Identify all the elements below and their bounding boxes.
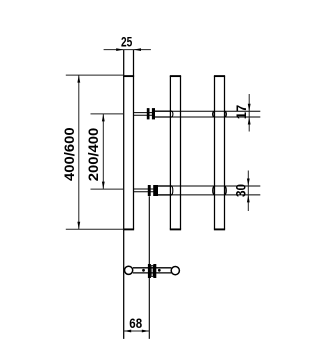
upper standoff: threaded rod xyxy=(134,112,153,114)
upper standoff: sleeve/extension lines to the right xyxy=(155,110,172,112)
plan view: washer outline between nuts xyxy=(151,266,153,277)
plan view: nut bar B xyxy=(153,264,156,278)
glass line (extension from lower fixing to dim 68) xyxy=(148,196,150,339)
lower standoff: nut A xyxy=(148,185,151,196)
upper standoff: nut B xyxy=(152,108,155,119)
dim 400/600: bottom extension line xyxy=(66,228,124,230)
dim 17: dimension line with arrows xyxy=(248,94,250,132)
lower standoff: hole arc at bar2 xyxy=(213,187,214,195)
lower standoff: sleeve end arc xyxy=(171,186,173,195)
bar 2 (rear handle tube) xyxy=(214,76,216,229)
upper standoff: hole arc at bar2 xyxy=(213,112,215,117)
main tube left edge (also extension line for dims 25 and 68) xyxy=(123,50,125,339)
dim 200/400: dimension line xyxy=(102,114,104,189)
plan view: left tube circle xyxy=(125,266,133,274)
svg-text:68: 68 xyxy=(129,315,142,331)
upper standoff: sleeve end arc xyxy=(171,111,173,117)
dim 30: dimension line with arrows xyxy=(247,171,249,212)
svg-text:400/600: 400/600 xyxy=(61,127,77,181)
plan view: screw dot right xyxy=(158,269,161,272)
svg-text:17: 17 xyxy=(233,105,249,120)
dim 25: right arrow xyxy=(134,48,142,51)
upper standoff: nut A xyxy=(147,108,150,119)
svg-text:200/400: 200/400 xyxy=(85,128,101,182)
plan view: nut bar A xyxy=(148,264,151,278)
dim 400/600: top extension line xyxy=(66,74,124,76)
dim 25: left arrow xyxy=(116,48,124,51)
plan view: right tube circle xyxy=(171,267,179,275)
dim 25: dimension line xyxy=(104,49,151,51)
lower standoff: nut B + sleeve wall xyxy=(153,185,158,196)
svg-text:30: 30 xyxy=(233,184,249,197)
bar 1 (rear handle tube) xyxy=(169,76,171,229)
main tube bottom cap xyxy=(123,228,134,230)
plan view: screw dot left xyxy=(142,269,145,272)
dim 200/400: top extension line xyxy=(91,113,124,115)
main tube right edge (also extension line for dim 25) xyxy=(133,50,135,230)
plan view: rod left segment xyxy=(133,267,171,269)
lower standoff: sleeve/extension lines to the right xyxy=(156,185,172,187)
svg-text:25: 25 xyxy=(121,34,132,50)
dim 68: dimension line xyxy=(124,330,150,332)
main tube top cap xyxy=(123,75,134,77)
lower standoff: threaded rod xyxy=(134,188,155,190)
dim 200/400: bottom extension line xyxy=(91,188,124,190)
dim 400/600: dimension line xyxy=(78,75,80,229)
